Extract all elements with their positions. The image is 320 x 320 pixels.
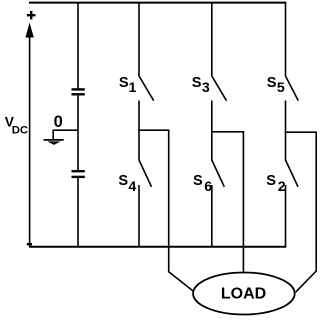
switch S5 blade: [286, 76, 299, 101]
svg-text:S: S: [119, 75, 129, 91]
wire capacitor branch lower: [77, 178, 79, 248]
label VDC: [5, 115, 28, 137]
wire phase B output: [211, 131, 243, 273]
wire capacitor branch upper: [77, 3, 79, 89]
svg-text:S: S: [118, 173, 128, 189]
wire leg1 lower: [138, 185, 140, 248]
wire leg2 lower: [211, 185, 213, 248]
svg-text:0: 0: [54, 113, 63, 131]
wire leg2 middle: [211, 101, 213, 161]
wire node 0 to ground: [53, 130, 78, 140]
wire leg1 middle: [138, 101, 140, 161]
switch S3 blade: [212, 76, 227, 101]
capacitor C2: [72, 171, 85, 177]
svg-text:5: 5: [277, 80, 285, 96]
svg-text:S: S: [192, 75, 202, 91]
svg-text:S: S: [267, 75, 277, 91]
svg-text:DC: DC: [12, 124, 28, 136]
wire leg3 middle: [285, 101, 287, 161]
svg-text:S: S: [266, 173, 276, 189]
svg-text:LOAD: LOAD: [221, 286, 266, 303]
wire leg2 upper: [211, 3, 213, 77]
svg-text:S: S: [193, 173, 203, 189]
label + (positive terminal): [27, 11, 36, 20]
label S4: [118, 173, 136, 195]
svg-text:2: 2: [278, 179, 286, 195]
load ellipse: [193, 273, 295, 315]
wire top DC bus: [29, 2, 286, 4]
svg-text:3: 3: [202, 80, 210, 96]
label S3: [192, 75, 210, 96]
ground: [44, 140, 64, 145]
wire phase A output: [138, 130, 193, 292]
wire leg1 upper: [138, 3, 140, 77]
wire leg3 upper: [285, 3, 287, 77]
label S5: [267, 75, 285, 96]
switch S2 blade: [286, 160, 299, 187]
label S1: [119, 75, 137, 96]
label - (negative terminal): [27, 243, 32, 245]
capacitor C1: [72, 89, 85, 94]
switch S4 blade: [139, 160, 152, 187]
switch S6 blade: [212, 160, 225, 187]
wire leg3 lower: [285, 185, 287, 248]
switch S1 blade: [139, 76, 154, 101]
svg-text:4: 4: [128, 179, 136, 195]
voltage source VDC arrow: [25, 23, 33, 247]
wire phase C output: [285, 131, 316, 292]
svg-text:1: 1: [129, 80, 137, 96]
wire between capacitors: [77, 95, 79, 171]
label S6: [193, 173, 212, 195]
wire bottom DC bus: [29, 246, 286, 248]
label S2: [266, 173, 286, 195]
